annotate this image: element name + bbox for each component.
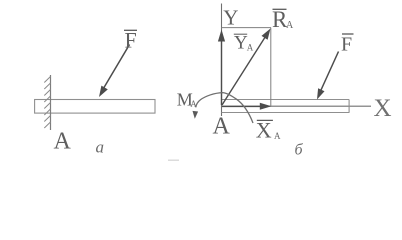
construction line top (Ya tip to Ra tip)	[222, 27, 272, 29]
svg-text:X: X	[256, 117, 272, 142]
beam (diagram b)	[222, 100, 350, 113]
vector Ya (arrow up along axis)	[218, 30, 225, 106]
svg-text:F: F	[125, 28, 137, 53]
wall hatching	[44, 77, 50, 129]
label Xa with overline	[256, 117, 281, 142]
label F with overline (diagram a)	[124, 28, 137, 53]
svg-text:A: A	[247, 43, 254, 53]
moment arc Ma	[193, 93, 254, 123]
wall support line	[50, 75, 52, 130]
svg-text:A: A	[213, 114, 231, 140]
label Ma	[177, 89, 198, 109]
svg-text:A: A	[54, 129, 72, 155]
svg-text:б: б	[295, 142, 304, 159]
svg-text:A: A	[286, 20, 294, 31]
label Ya with overline	[234, 33, 254, 54]
label F with overline (diagram b)	[341, 34, 354, 56]
svg-text:A: A	[190, 99, 197, 109]
vector Xa (arrow right along axis)	[222, 103, 272, 110]
label Ra with overline	[272, 7, 294, 32]
force F arrow (diagram a)	[99, 45, 130, 98]
svg-text:A: A	[274, 131, 281, 141]
svg-text:F: F	[341, 34, 352, 56]
construction line right (Ra tip to Xa tip)	[270, 28, 272, 106]
svg-text:а: а	[96, 138, 105, 157]
faint scan smudge	[168, 160, 179, 161]
svg-text:X: X	[374, 95, 392, 122]
beam (diagram a)	[35, 100, 155, 114]
vector Ra	[222, 29, 271, 106]
svg-text:Y: Y	[223, 6, 238, 30]
Y axis	[221, 4, 223, 117]
force F arrow (diagram b)	[317, 52, 339, 100]
X axis	[222, 105, 372, 107]
